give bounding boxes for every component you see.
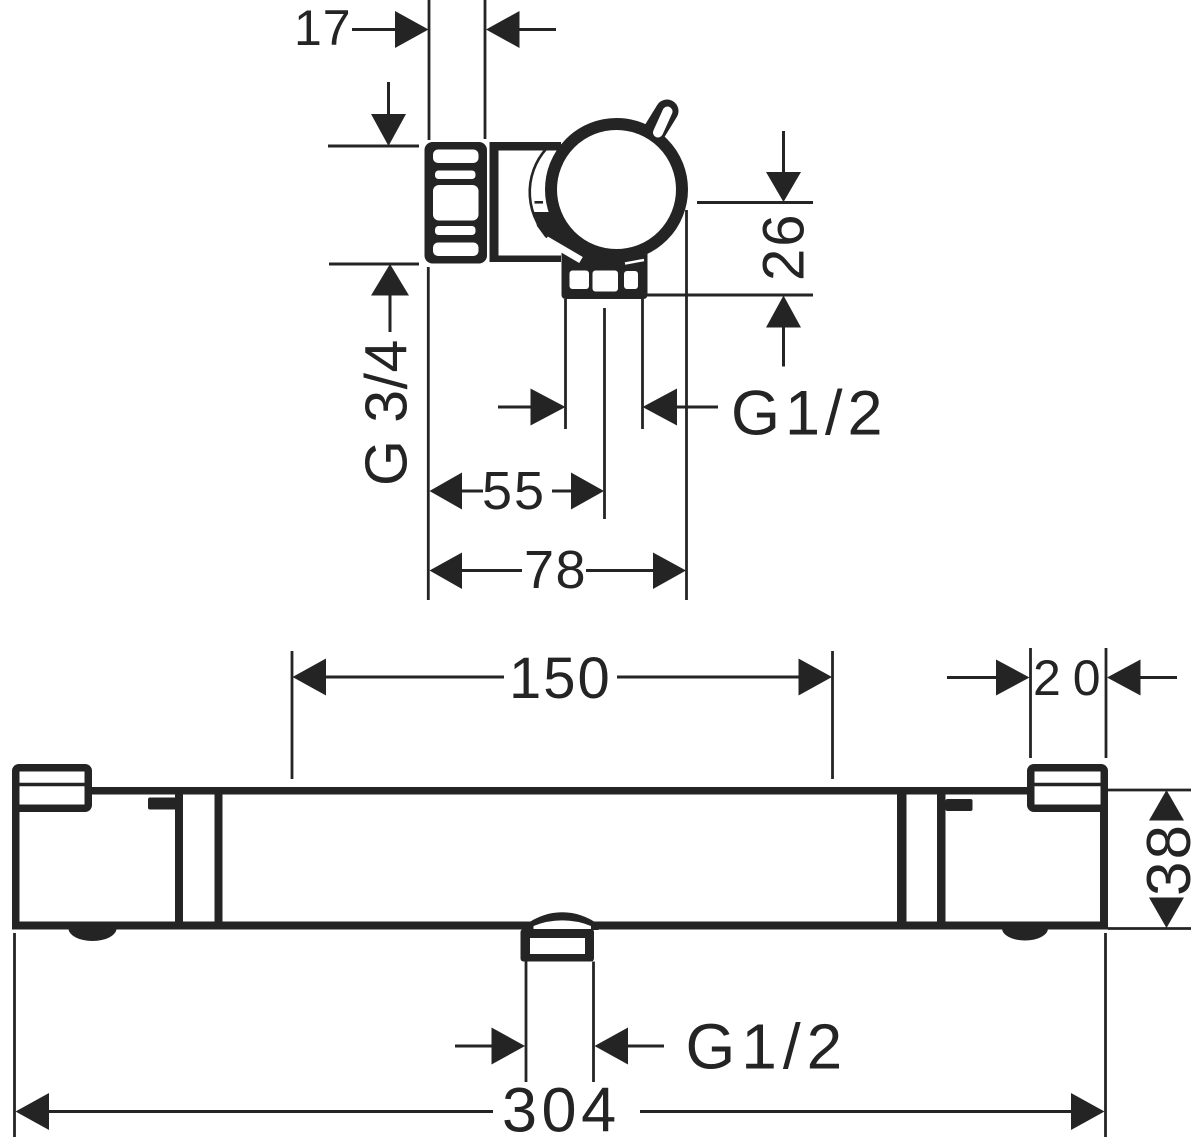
- left stop tab: [148, 798, 177, 810]
- dim 150 left line: [326, 676, 504, 679]
- dim 150 right line: [617, 676, 799, 679]
- G1/2 fitting under handle: [562, 243, 648, 299]
- dim 55/78 left extension line: [427, 267, 430, 600]
- G 3/4 up-arrow: [371, 264, 409, 296]
- dim 78 left arrow: [430, 553, 463, 590]
- right screw boss bump: [1002, 929, 1048, 941]
- dim 17 right line: [519, 28, 556, 31]
- dim 26 bottom line: [646, 294, 813, 297]
- dim 20 right arrow: [1107, 660, 1141, 696]
- dim 20 right line: [1141, 676, 1178, 679]
- svg-text:55: 55: [482, 461, 546, 521]
- handle lever white core: [658, 112, 668, 133]
- svg-text:G1/2: G1/2: [686, 1011, 849, 1083]
- G1/2 bottom right arrow line: [628, 1045, 664, 1048]
- dim 38 top line: [1108, 789, 1191, 792]
- dim 304 right extension line: [1104, 933, 1107, 1137]
- G1/2 bottom left arrow: [492, 1028, 526, 1065]
- svg-text:150: 150: [509, 646, 612, 711]
- dim 78 right arrow: [653, 553, 686, 590]
- svg-text:20: 20: [1033, 650, 1113, 706]
- svg-text:78: 78: [524, 540, 587, 600]
- left union joint line 1: [175, 795, 183, 922]
- dim 55 left arrow: [430, 473, 463, 510]
- dim 17 left line: [352, 28, 396, 31]
- dim 55 right arrow: [571, 473, 604, 510]
- dim 38 up-arrow: [1149, 790, 1184, 821]
- right stop tab: [946, 799, 973, 811]
- G1/2 bottom left arrow line: [455, 1045, 492, 1048]
- handle lever (black outline): [651, 111, 667, 137]
- dim 304 right arrow: [1071, 1093, 1105, 1130]
- G1/2 left arrow line: [498, 406, 531, 409]
- G1/2 right arrow: [643, 389, 678, 426]
- nut top down-arrow stem: [387, 82, 390, 115]
- svg-text:17: 17: [294, 0, 352, 56]
- dim 26 up-arrow: [766, 296, 801, 328]
- dim 20 left line: [947, 676, 996, 679]
- center tick in rim: [535, 201, 544, 204]
- extension line x=429 (top): [428, 0, 431, 140]
- dim 17 right arrow: [395, 11, 429, 48]
- handle knob circle: [551, 124, 682, 255]
- dim 26 down-arrow: [766, 172, 801, 202]
- G1/2 right extension line: [641, 299, 644, 429]
- crescent lower wedge (black): [534, 212, 607, 264]
- G 3/4 arrow stem: [389, 295, 392, 332]
- knurled nut: [425, 142, 488, 264]
- dim 78 left line: [462, 569, 522, 572]
- dim 78 right line: [586, 569, 654, 572]
- left screw boss bump: [69, 929, 117, 942]
- dim 55 right line: [552, 490, 572, 493]
- svg-text:26: 26: [752, 212, 817, 281]
- dim 26 lower stem: [782, 327, 785, 367]
- outlet arch: [526, 912, 599, 930]
- white notch right of fitting: [625, 260, 644, 264]
- svg-text:G1/2: G1/2: [731, 379, 888, 449]
- dim 20 right extension line: [1105, 648, 1108, 758]
- svg-text:G 3/4: G 3/4: [354, 339, 420, 486]
- dim 20 left arrow: [996, 660, 1030, 696]
- svg-text:38: 38: [1135, 823, 1200, 896]
- dim 304 right line: [640, 1110, 1071, 1113]
- dim 26 upper stem: [782, 131, 785, 173]
- G1/2 left extension line: [564, 299, 567, 429]
- G1/2 right arrow line: [677, 406, 718, 409]
- bar body outline: [12, 787, 1108, 930]
- escutcheon rim arc (behind handle): [530, 149, 553, 242]
- left union joint line 2: [215, 795, 223, 922]
- dim 150 left arrow: [293, 659, 327, 696]
- dim 55 center extension line: [603, 308, 606, 519]
- dim 20 left extension line: [1029, 648, 1032, 758]
- G1/2 bottom right extension line: [592, 962, 595, 1083]
- left cap divider: [16, 783, 88, 787]
- dim 26 top line: [697, 201, 813, 204]
- right cap divider: [1031, 783, 1104, 787]
- dim 150 left extension line: [291, 651, 294, 779]
- dim 304 left line: [49, 1110, 493, 1113]
- white slash between handle and body corner: [546, 240, 581, 261]
- dim 304 left arrow: [16, 1093, 50, 1130]
- dim 150 right extension line: [831, 651, 834, 779]
- dim 150 right arrow: [799, 659, 833, 696]
- nut bottom level line: [329, 263, 419, 266]
- dim 17 left arrow: [486, 11, 520, 48]
- left escutcheon cap: [12, 764, 92, 812]
- svg-text:304: 304: [502, 1076, 621, 1145]
- right union joint line 2: [937, 795, 946, 922]
- nut top down-arrow: [371, 114, 406, 146]
- G1/2 bottom left extension line: [525, 962, 528, 1083]
- outlet nipple: [521, 929, 595, 962]
- extension line x=485 (top): [484, 0, 487, 139]
- right union joint line 1: [897, 795, 907, 922]
- right escutcheon cap: [1027, 764, 1108, 812]
- dim 38 bottom line: [1108, 927, 1191, 930]
- G1/2 bottom right arrow: [595, 1028, 629, 1065]
- G1/2 left arrow: [531, 389, 566, 426]
- dim 55 left line: [462, 490, 483, 493]
- valve body: [490, 142, 562, 262]
- nut top level line: [328, 145, 419, 148]
- dim 38 down-arrow: [1149, 898, 1184, 929]
- dim 304 left extension line: [13, 933, 16, 1137]
- dim 78 right extension line: [685, 210, 688, 600]
